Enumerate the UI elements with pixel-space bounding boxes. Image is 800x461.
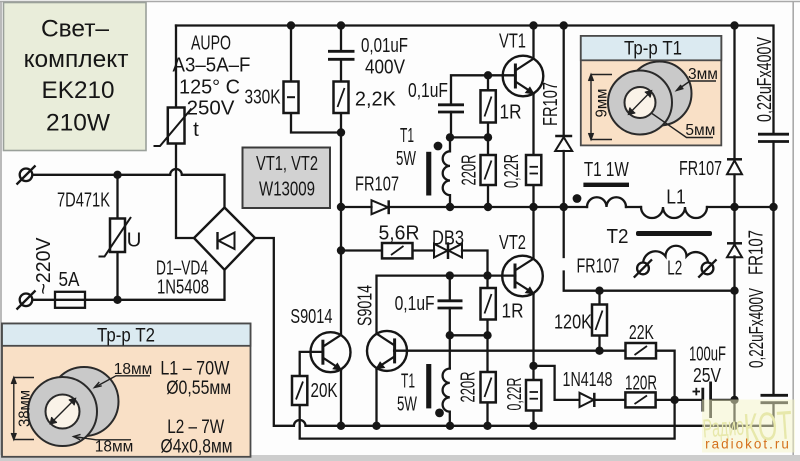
wire mid bus y207 left segment to FR107 anode	[341, 206, 372, 208]
svg-text:18мм: 18мм	[95, 439, 134, 456]
wire top rail and right column down to cap1	[176, 26, 774, 135]
transformer T2 core	[636, 231, 712, 236]
Tp-p T1 info box	[581, 36, 722, 145]
transformer T1-1W core	[583, 183, 629, 187]
svg-text:0,22R: 0,22R	[500, 154, 523, 188]
wire VT2 emitter node to 1N4148	[534, 366, 580, 400]
terminal input bottom	[20, 294, 33, 307]
wire 1R-1 vertical through base dot	[487, 75, 489, 90]
svg-text:125° C: 125° C	[179, 76, 240, 98]
svg-text:1R: 1R	[500, 101, 522, 124]
T1 1W winding bumps	[587, 197, 626, 207]
node VT1 base	[484, 71, 492, 79]
wire 120R to 100uF plus	[656, 399, 703, 401]
svg-text:0,01uF: 0,01uF	[361, 34, 408, 57]
wire T1-1W to L1	[626, 206, 641, 208]
svg-text:L1 – 70W: L1 – 70W	[160, 357, 229, 379]
diode FR107 mid horizontal	[372, 200, 389, 214]
wire FR107 column upper diode segment	[733, 26, 735, 160]
svg-text:5A: 5A	[59, 269, 80, 292]
terminal input top	[20, 169, 33, 182]
T1 toroid dimension 5mm with diameter arrow	[629, 91, 714, 138]
node varistor bottom tap	[113, 296, 121, 304]
wire VT2 collector lead	[532, 207, 534, 259]
svg-text:250V: 250V	[187, 97, 235, 120]
svg-text:38мм: 38мм	[16, 390, 33, 427]
wire 1N4148 to 120R	[595, 399, 626, 401]
wire FR107-B column and corner to 120K line	[563, 207, 565, 257]
svg-text:FR107: FR107	[679, 156, 722, 179]
transformer T1 lower winding	[443, 369, 450, 426]
node mid bus at 2,2K line	[337, 203, 345, 211]
node y335 at 1R-2	[483, 331, 491, 339]
lamp terminal right	[702, 263, 714, 275]
svg-text:400V: 400V	[365, 56, 405, 79]
svg-text:FR107: FR107	[355, 172, 399, 195]
winding phase dot T1-1W	[573, 194, 582, 203]
svg-text:330K: 330K	[245, 85, 281, 108]
svg-text:120K: 120K	[554, 310, 593, 333]
wire 5,6R to DB3	[413, 249, 435, 251]
wire 0,1uF-1 bottom lead	[450, 112, 452, 137]
node mid bus at right column	[769, 203, 777, 211]
svg-text:0,22R: 0,22R	[503, 378, 526, 411]
node mid bus at FR107-B	[560, 203, 568, 211]
node 100uF/FR107 column	[730, 396, 738, 404]
watermark radiokot	[702, 400, 795, 453]
svg-text:FR107: FR107	[539, 82, 562, 126]
node y335 at 0,1uF-2	[446, 331, 454, 339]
node 120K bottom	[595, 347, 603, 355]
node mid bus at FR107 column	[730, 203, 738, 211]
svg-text:T1: T1	[400, 124, 414, 147]
svg-text:7D471K: 7D471K	[57, 188, 110, 211]
svg-text:20K: 20K	[311, 379, 338, 402]
svg-text:1N5408: 1N5408	[157, 275, 209, 298]
svg-text:FR107: FR107	[744, 230, 767, 275]
resistor 1R-2	[481, 288, 496, 320]
resistor 2,2K	[334, 82, 349, 114]
svg-text:t: t	[193, 118, 199, 141]
wire y137 joining T1u top	[451, 136, 488, 138]
svg-text:VT1, VT2: VT1, VT2	[256, 152, 318, 175]
node top rail at 330K	[287, 21, 295, 29]
title box Свет-комплект EK210 210W	[4, 3, 147, 151]
wire 0,01uF top lead	[340, 26, 342, 52]
wire DB3 to VT2 base line corner	[462, 251, 488, 276]
node VT2 base at 0,1uF-2	[446, 271, 454, 279]
wire VT1 emitter lead to 0,22R-1	[532, 94, 534, 156]
node 1R-1/220R-1	[484, 133, 492, 141]
svg-text:A3–5A–F: A3–5A–F	[173, 54, 251, 77]
node top rail at FR107 right column	[730, 21, 738, 29]
node 330K/2,2K join	[337, 128, 345, 136]
node VT2 emitter to 1N4148	[529, 362, 537, 370]
diode FR107-A	[555, 135, 572, 138]
node FR107 column at 120K line	[730, 287, 738, 295]
wire VT1 collector lead	[532, 26, 534, 59]
wire mid bus y207 FR107 cathode to T1-1W winding	[390, 206, 588, 208]
capacitor 0,01uF	[328, 50, 355, 53]
capacitor 0,22uF bottom right	[761, 394, 789, 397]
svg-text:100uF: 100uF	[689, 341, 726, 365]
svg-text:5W: 5W	[396, 146, 417, 170]
svg-text:5мм: 5мм	[685, 122, 715, 139]
resistor 20K	[292, 376, 307, 405]
diac DB3	[447, 242, 450, 259]
svg-text:0,22uFx400V: 0,22uFx400V	[752, 37, 775, 122]
wire 0,1uF-2 bottom to T1 lower winding	[449, 308, 451, 369]
wire thermistor bottom lead to bridge left corner	[176, 144, 194, 239]
lamp terminal left	[637, 263, 649, 275]
T2 toroid drawing	[28, 367, 119, 446]
transformer T1 lower core	[426, 364, 431, 408]
wire 1R-2 top lead	[486, 276, 488, 288]
svg-text:5,6R: 5,6R	[379, 222, 420, 245]
wire varistor bottom lead	[116, 252, 118, 300]
svg-text:Тр-р Т2: Тр-р Т2	[97, 325, 155, 346]
wire fuse to bridge bottom	[85, 270, 225, 300]
wire 20K bottom via bus2 up to 120R node	[300, 351, 675, 439]
svg-text:120R: 120R	[625, 371, 657, 395]
wire 2,2K bottom long vertical to S9014-1 collector	[340, 113, 342, 335]
svg-text:S9014: S9014	[353, 285, 376, 326]
svg-text:VT1: VT1	[499, 29, 526, 52]
svg-text:T2: T2	[606, 225, 628, 248]
svg-text:0,22uFx400V: 0,22uFx400V	[744, 288, 768, 368]
wire 1R-2 bottom through y335 to 220R-2	[486, 320, 488, 373]
svg-text:25V: 25V	[693, 363, 722, 387]
svg-text:1R: 1R	[502, 300, 524, 323]
wire L1 to right column	[707, 206, 774, 208]
wire right column cap1 to cap2	[772, 142, 774, 396]
node top rail at FR107-A	[560, 21, 568, 29]
wire thermistor top lead	[175, 26, 177, 108]
wire 0,01uF to 2,2K	[340, 60, 342, 82]
node 120R/22K join	[670, 396, 678, 404]
svg-text:T1 1W: T1 1W	[584, 158, 629, 181]
wire input top with hop over thermistor line, to bridge top	[33, 169, 225, 208]
capacitor 100uF electrolytic	[701, 388, 704, 412]
node bus1 0,22R-2	[529, 422, 537, 430]
T1 toroid dimension 9mm	[589, 75, 613, 140]
node bus1 220R-2	[483, 422, 491, 430]
svg-text:L2: L2	[667, 256, 682, 280]
wire 0,1uF-2 top lead	[449, 276, 451, 301]
wire varistor top lead	[116, 175, 118, 219]
svg-text:210W: 210W	[46, 110, 111, 137]
node top rail at 0,01uF	[337, 21, 345, 29]
svg-text:220R: 220R	[455, 372, 479, 403]
svg-text:S9014: S9014	[290, 305, 332, 328]
svg-text:3мм: 3мм	[688, 66, 718, 83]
capacitor 0,22uF top right	[758, 133, 789, 136]
node varistor tap	[113, 171, 121, 179]
svg-text:2,2K: 2,2K	[355, 88, 396, 110]
wire S9014-2 emitter to bus1	[375, 369, 377, 426]
node mid bus at T1u	[446, 203, 454, 211]
bridge rectifier D1-VD4 diamond	[194, 208, 255, 270]
svg-text:0,1uF: 0,1uF	[408, 78, 448, 102]
svg-text:EK210: EK210	[42, 77, 115, 104]
node VT2 base at 1R-2	[483, 271, 491, 279]
node 5,6R tap	[337, 246, 345, 254]
fuse 5A	[55, 292, 85, 308]
lamp L2 winding	[643, 246, 708, 262]
wire S9014-1 emitter to bus1	[340, 370, 342, 426]
svg-text:Ø4x0,8мм: Ø4x0,8мм	[161, 435, 233, 457]
svg-text:1N4148: 1N4148	[563, 367, 613, 390]
T2 toroid dimension 38mm	[11, 378, 34, 440]
svg-text:L1: L1	[666, 186, 686, 209]
transformer T1 upper core	[426, 152, 431, 196]
wire VT2 base line y275 from S9014-2 collector	[377, 276, 516, 334]
wire 1R-1 bottom to 220R-1 top	[487, 123, 489, 156]
resistor 1R-1	[481, 90, 496, 122]
svg-text:T1: T1	[401, 369, 415, 392]
thermistor t AUPO	[168, 108, 185, 144]
wire 120K top lead	[598, 291, 600, 305]
capacitor 0,1uF-2	[438, 299, 463, 302]
resistor 0,22R-2	[526, 380, 541, 411]
transistor VT1	[503, 56, 544, 97]
resistor 5,6R	[382, 243, 413, 258]
node 120K top	[595, 287, 603, 295]
svg-text:22K: 22K	[629, 320, 654, 343]
svg-text:комплект: комплект	[24, 46, 129, 73]
svg-text:0,1uF: 0,1uF	[395, 291, 435, 315]
svg-text:DB3: DB3	[432, 226, 464, 249]
transistor VT2	[502, 256, 543, 297]
wire 0,22R-1 bottom to mid bus	[532, 185, 534, 207]
node mid bus at 220R-1	[484, 203, 492, 211]
wire S9014-1 base to 20K	[300, 352, 323, 376]
diode FR107-2 right column lower	[727, 242, 742, 245]
node bus1 FR107 column	[730, 422, 738, 430]
T2 toroid dimension 18mm bottom with diameter arrow	[50, 399, 131, 440]
node bus1 S9014-2 emitter	[372, 422, 380, 430]
resistor 22K	[626, 343, 657, 358]
wire input bottom to fuse	[33, 299, 56, 301]
svg-text:Ø0,55мм: Ø0,55мм	[166, 377, 231, 399]
wire FR107-A to mid bus	[563, 151, 565, 207]
svg-text:18мм: 18мм	[114, 361, 153, 378]
wire 120K bottom lead	[598, 336, 600, 351]
node top rail at VT1 collector	[529, 21, 537, 29]
wire 330K top lead	[290, 26, 292, 82]
svg-text:5W: 5W	[397, 392, 418, 416]
svg-text:W13009: W13009	[259, 177, 315, 200]
wire VT2 emitter long lead to 0,22R-2	[532, 294, 534, 381]
diode FR107-1 right column upper	[727, 158, 742, 161]
wire y250 from 2,2K line to 5,6R	[341, 249, 382, 251]
resistor 220R-1	[481, 155, 496, 185]
node bus1 T1 lower	[446, 422, 454, 430]
svg-text:U: U	[127, 229, 142, 252]
inductor L1 winding bumps	[641, 207, 707, 218]
winding phase dot T1 lower	[435, 409, 444, 418]
VT1 VT2 type box W13009	[243, 148, 331, 209]
wire FR107-A column top	[563, 26, 565, 137]
svg-text:FR107: FR107	[577, 254, 620, 277]
wire 100uF to FR107 column	[711, 399, 735, 401]
svg-text:Тр-р Т1: Тр-р Т1	[624, 38, 682, 59]
T2 toroid dimension 18mm top	[95, 376, 151, 388]
wire 220R-1 bottom to mid bus	[487, 185, 489, 207]
svg-text:VT2: VT2	[499, 231, 526, 254]
wire 330K bottom lead to 2,2K line	[291, 113, 341, 133]
svg-text:AUPO: AUPO	[191, 31, 231, 54]
resistor 220R-2	[481, 372, 496, 402]
svg-text:~220V: ~220V	[33, 237, 56, 295]
T1 toroid drawing	[608, 62, 692, 135]
wire y335 joining caps	[450, 334, 488, 336]
winding phase dot T1 upper	[434, 142, 443, 151]
bridge inner diode	[216, 232, 218, 250]
svg-text:9мм: 9мм	[593, 89, 610, 118]
T1 toroid dimension 3mm	[677, 81, 717, 91]
transistor Q1 S9014	[311, 332, 351, 372]
node T1u top	[446, 133, 454, 141]
Tp-p T2 info box	[2, 324, 251, 457]
wire S9014-2 base line y350 to 22K	[394, 350, 625, 352]
resistor 120R	[625, 392, 655, 407]
svg-text:Свет–: Свет–	[41, 16, 109, 43]
varistor U 7D471K	[110, 219, 125, 253]
resistor 120K	[592, 305, 607, 336]
node bus1 S9014-1 emitter	[337, 422, 345, 430]
transformer T1 upper winding	[443, 137, 450, 207]
wire FR107 column lower segment	[733, 257, 735, 426]
wire bridge right corner to bus1 with hop over 20K line, up to cap2 bottom	[255, 238, 774, 426]
resistor 0,22R-1	[526, 155, 541, 185]
svg-text:radiokot.ru: radiokot.ru	[705, 437, 791, 452]
wire 220R-2 bottom to bus1	[486, 402, 488, 425]
resistor 330K	[284, 82, 299, 114]
wire VT1 base to 0,1uF-1	[451, 75, 515, 104]
wire 0,22R-2 bottom to bus1	[532, 411, 534, 426]
node mid bus at VT2 collector	[529, 203, 537, 211]
capacitor 0,1uF-1	[438, 103, 464, 106]
transistor Q2 S9014 mirrored	[367, 331, 407, 371]
svg-text:220R: 220R	[456, 155, 480, 186]
diode 1N4148	[580, 393, 594, 407]
